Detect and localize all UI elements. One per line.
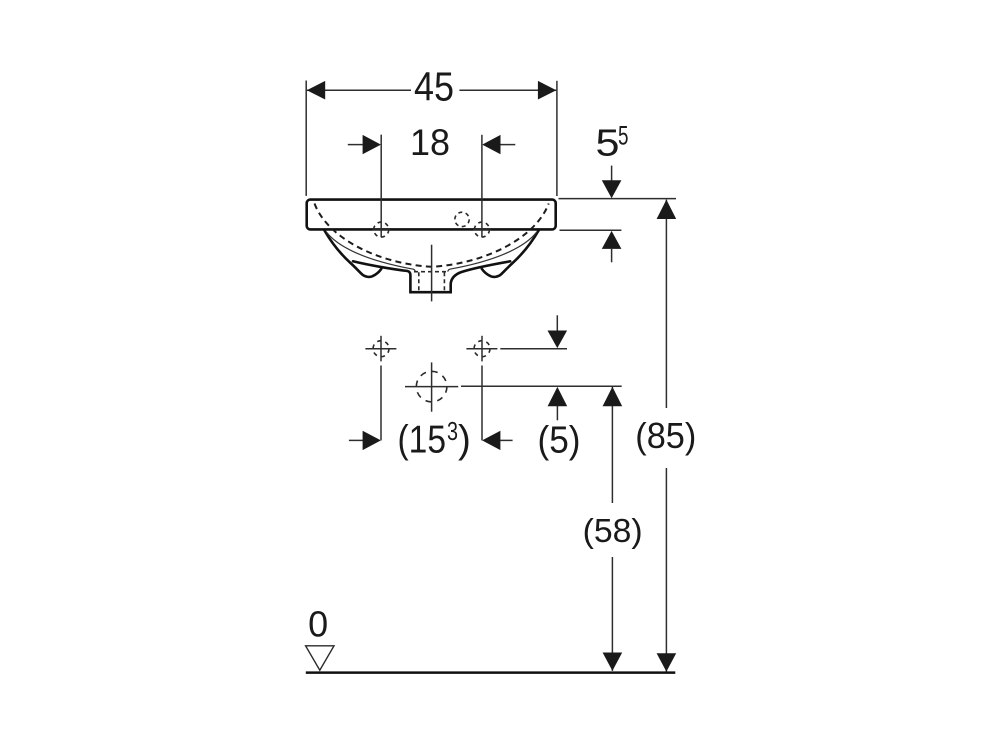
bowl outer outline right with lobe: [482, 231, 539, 277]
basin inner rim dashed arc: [315, 204, 549, 267]
svg-text:(15: (15: [398, 419, 447, 462]
bowl inner thin line left: [327, 232, 416, 271]
drain box hidden dashed horizontal: [414, 271, 448, 273]
drain cross horizontal: [405, 386, 458, 388]
fixing hole left vertical lower: [380, 366, 382, 441]
dim (85) vertical upper: [665, 200, 667, 408]
dim (15.3) arrow right: [482, 431, 500, 450]
svg-text:(85): (85): [635, 415, 696, 456]
dim 18 extension line right: [481, 135, 483, 238]
datum triangle: [306, 646, 334, 670]
fixing hole right cross horizontal: [466, 348, 497, 350]
svg-text:3: 3: [447, 416, 458, 446]
dim (85) arrow top: [657, 200, 677, 219]
dim 18 tail right: [500, 144, 515, 146]
dim (15.3) tail left: [349, 439, 363, 441]
svg-text:45: 45: [414, 64, 454, 110]
dim 18 tail left: [348, 144, 363, 146]
basin centre line: [431, 245, 433, 302]
dim 45 line right segment: [459, 89, 556, 91]
dim (85) arrow bottom: [657, 653, 677, 671]
fixing hole left vertical upper: [380, 336, 382, 362]
bowl inner thin line right: [448, 232, 537, 271]
dim (58) arrow top: [603, 387, 623, 406]
dim 18 arrow left: [363, 135, 381, 154]
dim (58) arrow bottom: [603, 653, 623, 671]
fixing hole right vertical upper: [481, 336, 483, 362]
svg-text:5: 5: [596, 123, 620, 165]
drain box hidden dashed vertical left: [418, 272, 420, 292]
dim 5.5 arrow top: [602, 180, 622, 198]
dim 45 line left segment: [307, 89, 411, 91]
tap hole left cross horizontal: [373, 229, 391, 231]
bowl outer outline left with lobe: [325, 231, 382, 277]
drain dashed circle: [416, 371, 447, 402]
svg-text:18: 18: [410, 122, 450, 163]
dim (15.3) tail right: [500, 439, 512, 441]
dim (5) extension line top: [500, 348, 567, 350]
dim 45 arrow left: [307, 81, 325, 100]
dim (85) vertical lower: [665, 468, 667, 672]
tap hole left dashed circle: [374, 222, 389, 237]
dim 5.5 tail top: [611, 166, 613, 181]
fixing hole right vertical lower: [481, 366, 483, 441]
drain box hidden dashed vertical right: [443, 272, 445, 292]
dim (5) extension line bottom: [461, 385, 622, 387]
dim (5) arrow bottom: [548, 387, 568, 406]
floor baseline: [306, 671, 676, 674]
svg-text:0: 0: [308, 604, 328, 645]
dim 45 extension line left: [305, 81, 307, 196]
dim 18 extension line left: [380, 135, 382, 238]
dim 5.5 extension line bottom: [560, 229, 622, 231]
fixing hole right dashed circle: [474, 341, 490, 357]
dim (5) tail top: [556, 315, 558, 330]
dim 5.5 extension line top: [559, 198, 677, 200]
washbasin tap deck rectangle: [307, 200, 556, 230]
tap hole right cross horizontal: [473, 229, 491, 231]
dim (15.3) arrow left: [363, 431, 381, 450]
svg-text:(5): (5): [538, 419, 581, 461]
dim (5) tail bottom: [556, 406, 558, 420]
dim 18 arrow right: [482, 135, 500, 154]
dim 5.5 tail bottom: [611, 249, 613, 262]
svg-text:(58): (58): [583, 513, 643, 550]
channel edge and drain box: [353, 261, 510, 292]
fixing hole left cross horizontal: [365, 348, 396, 350]
dim (58) vertical upper: [611, 387, 613, 503]
drain cross vertical: [431, 362, 433, 411]
dim (5) arrow top: [548, 331, 568, 349]
dim 45 extension line right: [556, 81, 558, 196]
svg-text:): ): [458, 419, 471, 462]
svg-text:5: 5: [618, 120, 629, 150]
dim 5.5 arrow bottom: [602, 231, 622, 249]
fixing hole left dashed circle: [373, 341, 389, 357]
dim 45 arrow right: [538, 81, 556, 100]
tap hole right dashed circle: [474, 222, 489, 237]
overflow dashed circle: [455, 212, 469, 226]
dim (58) vertical lower: [611, 557, 613, 671]
